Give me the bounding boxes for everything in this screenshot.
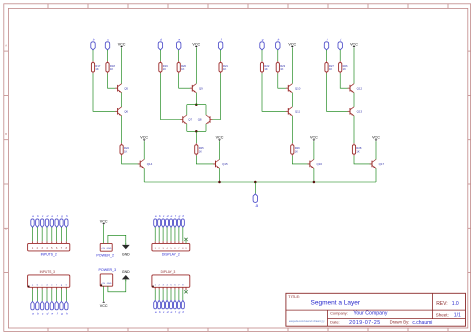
wire Q13 emitter to R28 bbox=[353, 116, 355, 144]
svg-text:1K: 1K bbox=[356, 149, 359, 153]
pin 4 of DIPLAY_3 bbox=[166, 285, 169, 315]
label DISPLAY_2 bbox=[162, 253, 180, 257]
wire R25 to Q15 base bbox=[196, 156, 215, 164]
label POWER_2 bbox=[96, 253, 114, 257]
connector INPUTS_3 body bbox=[28, 275, 70, 287]
svg-text:GND: GND bbox=[107, 283, 112, 285]
wire Q12 emitter to Q13 collector bbox=[353, 93, 355, 107]
wire R21 to Q8 base bbox=[212, 73, 220, 119]
wire R29 to Q16 base bbox=[292, 156, 310, 164]
svg-text:INPUTS_2: INPUTS_2 bbox=[41, 253, 57, 257]
resistor R27 bbox=[325, 61, 334, 73]
wire POWER_2 pin2 to GND bbox=[108, 235, 126, 243]
connector POWER_3 body bbox=[100, 274, 113, 286]
svg-text:Drawn By:: Drawn By: bbox=[390, 320, 410, 325]
pin 7 of INPUTS_2 bbox=[60, 214, 63, 250]
svg-text:1K: 1K bbox=[295, 149, 298, 153]
svg-text:DIPLAY_3: DIPLAY_3 bbox=[161, 270, 176, 274]
wire pin c to R18 bbox=[107, 50, 109, 61]
pin 2 of DISPLAY_2 bbox=[158, 214, 161, 250]
svg-text:Company:: Company: bbox=[330, 310, 348, 315]
resistor R28 bbox=[352, 143, 361, 155]
wire Q11 emitter to R29 bbox=[291, 116, 293, 144]
pin 2 of DIPLAY_3 bbox=[158, 285, 161, 315]
title block title text bbox=[311, 300, 361, 307]
svg-text:REV:: REV: bbox=[436, 301, 447, 307]
svg-text:1K: 1K bbox=[124, 149, 127, 153]
pin 6 of DISPLAY_2 bbox=[173, 214, 177, 250]
resistor R21 bbox=[219, 61, 228, 73]
node junction Q15-bus bbox=[218, 181, 221, 184]
svg-text:VCC: VCC bbox=[310, 136, 318, 140]
svg-text:1/1: 1/1 bbox=[454, 313, 461, 319]
svg-text:Q10: Q10 bbox=[295, 86, 301, 90]
wire pin b to R17 bbox=[92, 50, 94, 61]
ground GND (POWER_2) bbox=[122, 243, 130, 257]
wire Q9 emitter to node bbox=[195, 93, 197, 105]
wire VCC to Q15 collector bbox=[219, 141, 221, 159]
wire pin f to R21 bbox=[220, 50, 222, 61]
transistor Q17 bbox=[370, 159, 385, 168]
svg-text:2019-07-25: 2019-07-25 bbox=[349, 320, 381, 326]
wire Q14 emitter to bus bbox=[143, 168, 145, 182]
transistor Q8 bbox=[198, 115, 213, 124]
connector POWER_2 body bbox=[100, 243, 112, 251]
svg-text:A: A bbox=[5, 43, 7, 47]
VCC symbol (Q14) bbox=[140, 136, 148, 141]
wire VCC to Q16 collector bbox=[313, 141, 315, 159]
pin 4 of DISPLAY_2 bbox=[166, 214, 169, 250]
label INPUTS_3 bbox=[40, 270, 55, 274]
transistor Q9 bbox=[190, 84, 203, 93]
wire R24 to Q14 base bbox=[122, 156, 141, 164]
VCC symbol (POWER_2) bbox=[100, 219, 108, 224]
svg-text:INPUTS_3: INPUTS_3 bbox=[40, 270, 55, 274]
pin 5 of INPUTS_2 bbox=[50, 214, 53, 250]
title block Sheet bbox=[436, 312, 461, 318]
pin 9 of DIPLAY_3 (no-connect) bbox=[184, 287, 187, 293]
pin 8 of INPUTS_2 bbox=[65, 214, 68, 250]
wire R18 to Q5 base bbox=[108, 73, 118, 88]
wire pin d to R19 bbox=[159, 50, 161, 61]
svg-text:+5V: +5V bbox=[101, 248, 105, 250]
resistor R17 bbox=[91, 61, 100, 73]
resistor R23 bbox=[276, 61, 285, 73]
svg-text:1.0: 1.0 bbox=[452, 301, 459, 307]
title block URL bbox=[289, 320, 325, 323]
wire POWER_3 pin1 to VCC bbox=[103, 286, 105, 301]
svg-text:Q14: Q14 bbox=[147, 162, 153, 166]
pin 8 of INPUTS_3 bbox=[65, 285, 68, 316]
resistor R18 bbox=[106, 61, 115, 73]
svg-text:VCC: VCC bbox=[372, 136, 380, 140]
pin 2 of INPUTS_3 bbox=[36, 285, 39, 316]
pin 1 of DISPLAY_2 bbox=[154, 214, 157, 250]
svg-text:Q13: Q13 bbox=[357, 110, 363, 114]
pin 6 of INPUTS_2 bbox=[55, 214, 59, 250]
pin 5 of DIPLAY_3 bbox=[170, 285, 173, 315]
svg-text:1K: 1K bbox=[199, 149, 202, 153]
wire Q15 emitter to bus bbox=[219, 168, 221, 182]
svg-text:c.chaumi: c.chaumi bbox=[412, 320, 432, 326]
label DIPLAY_3 bbox=[161, 270, 176, 274]
wire VCC to Q12 collector bbox=[353, 48, 355, 84]
pin net a (below bus) bbox=[253, 194, 259, 208]
VCC symbol (group4 top) bbox=[350, 42, 358, 47]
svg-text:POWER_3: POWER_3 bbox=[99, 268, 117, 272]
svg-text:DISPLAY_2: DISPLAY_2 bbox=[162, 253, 180, 257]
node junction (diamond bottom) bbox=[195, 130, 198, 133]
wire R23 to Q10 base bbox=[278, 73, 289, 88]
wire Q5 emitter to Q6 collector bbox=[121, 93, 123, 107]
svg-text:VCC: VCC bbox=[100, 304, 108, 308]
wire node to R25 bbox=[195, 131, 197, 143]
svg-text:Q12: Q12 bbox=[357, 86, 363, 90]
resistor R25 bbox=[195, 143, 204, 155]
resistor R26 bbox=[339, 61, 348, 73]
pin 9 of DISPLAY_2 (no-connect) bbox=[184, 238, 187, 250]
pin 8 of DISPLAY_2 bbox=[181, 214, 184, 250]
VCC symbol (group3 top) bbox=[288, 42, 296, 47]
pin net c (top, group1) bbox=[105, 38, 109, 50]
svg-text:Q6: Q6 bbox=[124, 110, 128, 114]
svg-text:GND: GND bbox=[122, 252, 130, 256]
wire R20 to Q9 base bbox=[179, 73, 193, 88]
wire pin e to R20 bbox=[178, 50, 180, 61]
svg-text:1K: 1K bbox=[343, 67, 346, 71]
svg-text:Q15: Q15 bbox=[222, 162, 228, 166]
title block TITLE label bbox=[288, 294, 300, 299]
wire R17 to Q6 base bbox=[93, 73, 118, 111]
wire VCC to Q14 collector bbox=[143, 141, 145, 159]
pin 3 of DIPLAY_3 bbox=[162, 285, 165, 315]
wire diamond bottom bar bbox=[187, 130, 206, 132]
wire pin j to R26 bbox=[339, 50, 341, 61]
wire Q10 emitter to Q11 collector bbox=[291, 93, 293, 107]
label POWER_3 bbox=[99, 268, 117, 272]
pin 5 of DISPLAY_2 bbox=[170, 214, 173, 250]
svg-text:B: B bbox=[5, 132, 7, 136]
wire diamond top bar bbox=[187, 104, 206, 106]
connector INPUTS_2 body bbox=[28, 243, 70, 251]
transistor Q7 bbox=[180, 115, 192, 124]
svg-text:VCC: VCC bbox=[118, 42, 126, 46]
VCC symbol (Q17) bbox=[372, 136, 380, 141]
svg-text:TITLE:: TITLE: bbox=[288, 294, 300, 299]
wire POWER_3 pin2 to GND bbox=[108, 282, 126, 292]
label INPUTS_2 bbox=[41, 253, 57, 257]
pin 1 of INPUTS_3 bbox=[31, 285, 34, 316]
svg-text:1K: 1K bbox=[223, 67, 226, 71]
node junction Q16-bus bbox=[313, 181, 316, 184]
svg-text:VCC: VCC bbox=[288, 42, 296, 46]
wire VCC to Q9 collector bbox=[195, 48, 197, 84]
resistor R19 bbox=[159, 61, 168, 73]
wire R27 to Q13 base bbox=[327, 73, 351, 111]
connector DIPLAY_3 body bbox=[152, 275, 190, 287]
svg-text:1K: 1K bbox=[95, 67, 98, 71]
svg-text:Q11: Q11 bbox=[295, 110, 301, 114]
node junction pin-a-bus bbox=[254, 181, 256, 184]
svg-text:Q8: Q8 bbox=[198, 118, 202, 122]
resistor R22 bbox=[260, 61, 269, 73]
pin net h (top, group3) bbox=[276, 38, 280, 50]
connector DISPLAY_2 body bbox=[152, 243, 190, 251]
svg-text:GND: GND bbox=[122, 270, 130, 274]
pin 5 of INPUTS_3 bbox=[50, 285, 53, 316]
svg-text:VCC: VCC bbox=[192, 42, 200, 46]
wire output bus (net a) bbox=[144, 181, 376, 183]
svg-text:1K: 1K bbox=[181, 67, 184, 71]
svg-text:Q7: Q7 bbox=[188, 118, 192, 122]
svg-text:GND: GND bbox=[107, 248, 112, 250]
svg-text:VCC: VCC bbox=[216, 136, 224, 140]
pin net e (top, group2) bbox=[177, 38, 181, 50]
svg-text:Sheet:: Sheet: bbox=[436, 312, 449, 317]
transistor Q14 bbox=[138, 159, 153, 168]
pin 7 of DIPLAY_3 bbox=[177, 285, 180, 315]
wire VCC to POWER_2 pin1 bbox=[103, 225, 105, 244]
transistor Q6 bbox=[115, 107, 128, 116]
svg-text:Q17: Q17 bbox=[379, 162, 385, 166]
title block REV bbox=[436, 301, 459, 307]
resistor R20 bbox=[177, 61, 186, 73]
svg-text:POWER_2: POWER_2 bbox=[96, 253, 114, 257]
pin 6 of INPUTS_3 bbox=[55, 285, 59, 316]
wire VCC to Q17 collector bbox=[375, 141, 377, 159]
wire VCC to Q5 collector bbox=[121, 48, 123, 84]
svg-text:Q9: Q9 bbox=[199, 86, 203, 90]
pin net j (top, group4) bbox=[338, 38, 342, 50]
wire Q16 emitter to bus bbox=[313, 168, 315, 182]
node junction (diamond top) bbox=[195, 103, 198, 106]
pin 2 of INPUTS_2 bbox=[36, 214, 39, 250]
svg-text:1K: 1K bbox=[329, 67, 332, 71]
transistor Q13 bbox=[348, 107, 363, 116]
VCC symbol (group2 top) bbox=[192, 42, 200, 47]
resistor R29 bbox=[291, 143, 300, 155]
title block frame bbox=[286, 293, 466, 326]
pin net d (top, group2) bbox=[158, 38, 162, 50]
svg-text:easyeda.com/users/c.chaumi_ly: easyeda.com/users/c.chaumi_ly bbox=[289, 320, 325, 323]
wire diamond right emitter bbox=[205, 124, 207, 131]
svg-text:Q16: Q16 bbox=[317, 162, 323, 166]
transistor Q11 bbox=[286, 107, 301, 116]
pin 8 of DIPLAY_3 bbox=[181, 285, 184, 315]
svg-text:VCC: VCC bbox=[100, 219, 108, 223]
wire R26 to Q12 base bbox=[340, 73, 350, 88]
pin 4 of INPUTS_2 bbox=[45, 214, 48, 250]
wire Q17 emitter to bus bbox=[375, 168, 377, 182]
pin net i (top, group4) bbox=[324, 38, 328, 50]
svg-text:Your Company: Your Company bbox=[353, 311, 388, 317]
pin 4 of INPUTS_3 bbox=[45, 285, 48, 316]
svg-text:1K: 1K bbox=[163, 67, 166, 71]
pin 6 of DIPLAY_3 bbox=[173, 285, 177, 315]
wire R28 to Q17 base bbox=[354, 156, 372, 164]
pin net f (top, group2) bbox=[218, 38, 222, 50]
pin 3 of INPUTS_2 bbox=[40, 214, 43, 250]
pin 3 of INPUTS_3 bbox=[40, 285, 43, 316]
wire diamond right collector bbox=[205, 105, 207, 115]
wire VCC to Q10 collector bbox=[291, 48, 293, 84]
VCC symbol (Q15) bbox=[216, 136, 224, 141]
wire pin g to R22 bbox=[261, 50, 263, 61]
pin 1 of DIPLAY_3 bbox=[154, 285, 157, 315]
pin 3 of DISPLAY_2 bbox=[162, 214, 165, 250]
wire Q6 emitter to R24 bbox=[121, 116, 123, 144]
svg-text:1K: 1K bbox=[110, 67, 113, 71]
title block Date bbox=[330, 320, 381, 326]
svg-text:Q5: Q5 bbox=[124, 86, 128, 90]
transistor Q16 bbox=[308, 159, 323, 168]
svg-text:Date:: Date: bbox=[330, 320, 340, 325]
transistor Q5 bbox=[115, 84, 128, 93]
wire diamond left emitter bbox=[186, 124, 188, 131]
VCC symbol (group1 top) bbox=[118, 42, 126, 47]
svg-text:1K: 1K bbox=[280, 67, 283, 71]
VCC symbol (POWER_3, below) bbox=[100, 301, 108, 308]
wire pin i to R27 bbox=[326, 50, 328, 61]
title block Drawn By bbox=[390, 320, 433, 326]
wire pin h to R23 bbox=[277, 50, 279, 61]
pin 7 of INPUTS_3 bbox=[60, 285, 63, 316]
svg-text:VCC: VCC bbox=[350, 42, 358, 46]
wire diamond left collector bbox=[186, 105, 188, 115]
wire R19 to Q7 base bbox=[160, 73, 180, 119]
pin net g (top, group3) bbox=[260, 38, 264, 50]
wire bus to pin a bbox=[254, 182, 256, 194]
ground GND (POWER_3, up) bbox=[122, 270, 130, 281]
wire R22 to Q11 base bbox=[262, 73, 288, 111]
pin 1 of INPUTS_2 bbox=[31, 214, 34, 250]
pin net b (top, group1) bbox=[91, 38, 95, 50]
resistor R24 bbox=[120, 143, 129, 155]
transistor Q12 bbox=[348, 84, 363, 93]
svg-text:1K: 1K bbox=[264, 67, 267, 71]
VCC symbol (Q16) bbox=[310, 136, 318, 141]
svg-text:Segment a Layer: Segment a Layer bbox=[311, 300, 361, 307]
transistor Q10 bbox=[286, 84, 301, 93]
svg-text:VCC: VCC bbox=[140, 136, 148, 140]
pin 7 of DISPLAY_2 bbox=[177, 214, 180, 250]
transistor Q15 bbox=[213, 159, 228, 168]
title block Company bbox=[330, 310, 388, 316]
